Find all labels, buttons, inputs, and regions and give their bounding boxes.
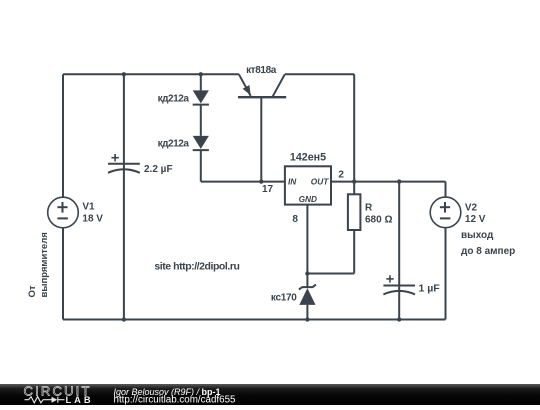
wire resistor bottom lead <box>353 230 355 274</box>
wire zener top lead <box>306 274 308 288</box>
label U1 pin names <box>288 177 329 204</box>
capacitor C1 2.2uF plates <box>108 154 140 173</box>
svg-text:OUT: OUT <box>311 177 329 187</box>
node junction bottom C2 <box>397 317 401 321</box>
voltage source V1 <box>48 197 79 228</box>
wire top rail <box>63 73 239 75</box>
wire collector top rail <box>285 73 354 75</box>
svg-text:R: R <box>365 203 373 214</box>
voltage source V2 <box>430 197 461 228</box>
svg-text:до 8 ампер: до 8 ампер <box>461 246 515 257</box>
logo resistor zigzag and diode <box>25 397 65 403</box>
svg-text:кд212а: кд212а <box>158 94 190 105</box>
wire capacitor C1 branch upper <box>123 74 125 319</box>
wire right vertical to OUT node <box>353 74 355 181</box>
node junction bottom zener <box>305 317 309 321</box>
svg-text:680 Ω: 680 Ω <box>365 215 392 226</box>
svg-text:кс170: кс170 <box>271 293 297 304</box>
svg-text:кт818а: кт818а <box>246 65 277 76</box>
footer bar <box>0 384 540 405</box>
svg-text:site http://2dipol.ru: site http://2dipol.ru <box>154 260 239 272</box>
svg-text:кд212а: кд212а <box>158 139 190 150</box>
svg-text:выход: выход <box>461 230 494 241</box>
wire resistor top lead <box>353 182 355 195</box>
node junction bottom C1 <box>122 317 126 321</box>
wire V2 top lead <box>445 182 447 198</box>
svg-text:выпрямителя: выпрямителя <box>39 232 50 297</box>
svg-text:18 V: 18 V <box>82 214 103 225</box>
svg-text:GND: GND <box>299 194 317 204</box>
node junction OUT/R <box>352 179 356 183</box>
wire OUT net horizontal <box>331 181 446 183</box>
transistor Q1 kt818a <box>238 74 286 97</box>
svg-text:17: 17 <box>262 184 274 195</box>
svg-text:2.2 µF: 2.2 µF <box>144 164 173 175</box>
node junction GND/zener/R <box>305 271 309 275</box>
node junction top diodes <box>199 72 203 76</box>
svg-text:1 µF: 1 µF <box>419 283 441 295</box>
node junction top C1 <box>122 72 126 76</box>
wire capacitor C2 branch upper <box>398 182 400 320</box>
wire left vertical lower <box>62 228 64 320</box>
wire zener bottom lead <box>306 305 308 320</box>
wire IN net horizontal <box>201 181 285 183</box>
svg-text:8: 8 <box>292 214 298 225</box>
wire resistor to GND node <box>307 273 354 275</box>
svg-text:2: 2 <box>338 169 344 180</box>
svg-text:142ен5: 142ен5 <box>290 152 326 164</box>
zener diode ks170 <box>299 285 316 305</box>
wire diode branch lower <box>200 150 202 182</box>
svg-text:12 V: 12 V <box>465 214 486 225</box>
svg-text:От: От <box>27 285 38 297</box>
node junction base/IN <box>259 179 263 183</box>
svg-text:http://circuitlab.com/cadf655: http://circuitlab.com/cadf655 <box>114 395 237 406</box>
wire diode branch upper <box>200 74 202 90</box>
diode D2 kd212a <box>193 136 209 150</box>
svg-text:V1: V1 <box>82 202 95 213</box>
svg-text:LAB: LAB <box>66 395 94 405</box>
resistor R body <box>348 194 361 230</box>
wire GND pin vertical <box>306 205 308 274</box>
label rotated source note <box>27 232 50 297</box>
diode D1 kd212a <box>193 90 209 104</box>
svg-text:V2: V2 <box>465 202 478 213</box>
svg-text:IN: IN <box>288 177 297 187</box>
wire bottom rail <box>63 319 446 321</box>
wire transistor base vertical <box>260 97 262 181</box>
node junction OUT/C2 <box>397 179 401 183</box>
wire left vertical upper <box>62 74 64 197</box>
wire between diodes <box>200 105 202 136</box>
capacitor C2 1uF plates <box>383 275 415 294</box>
wire V2 bottom lead <box>445 227 447 319</box>
regulator U1 142en5 box <box>285 166 331 204</box>
